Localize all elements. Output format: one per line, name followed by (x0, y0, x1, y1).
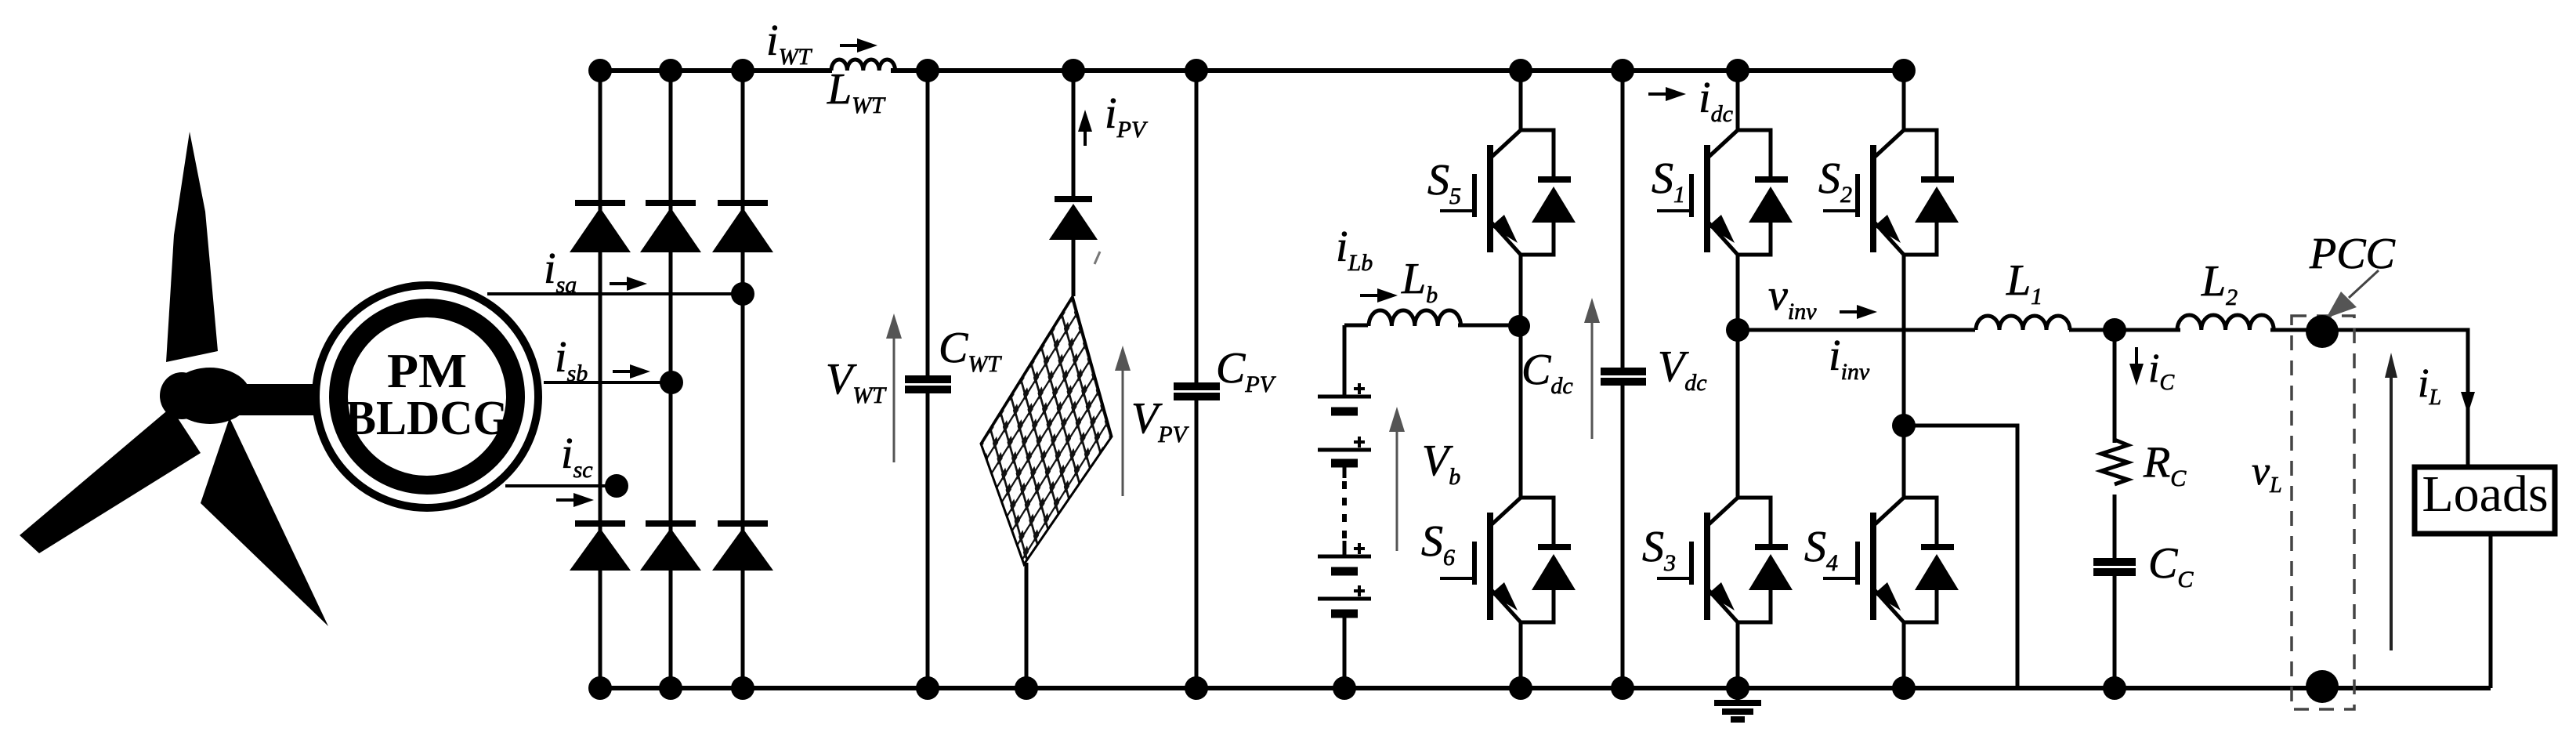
arrow i_sa (610, 282, 630, 285)
battery cell 3 (1318, 543, 1371, 571)
wire phase c (505, 484, 619, 487)
capacitor C_C (2093, 562, 2136, 572)
node battery bottom rail (1333, 676, 1356, 700)
node C_WT top (916, 59, 939, 82)
generator PM BLDCG inner ring (338, 308, 516, 485)
transistor S4 (1823, 498, 1959, 622)
svg-text:Loads: Loads (2422, 466, 2548, 523)
node S2 S4 midpoint (1892, 414, 1916, 437)
arrow i_WT (840, 44, 860, 47)
ground (1714, 688, 1761, 719)
node bottom rail col1 (588, 676, 612, 700)
node phase b junction (660, 371, 683, 394)
arrow i_C (2135, 347, 2138, 365)
battery cell 2 (1318, 437, 1371, 463)
transistor S1 (1657, 130, 1793, 255)
node S6 leg bottom (1509, 676, 1532, 700)
wire shunt branch middle (2113, 495, 2117, 561)
capacitor C_dc (1601, 371, 1646, 382)
Loads box (2415, 467, 2555, 534)
node bottom rail col3 (731, 676, 754, 700)
arrow v_inv (1840, 310, 1860, 313)
inductor L_WT (831, 60, 895, 71)
wire rectifier column 3 (741, 71, 745, 688)
arrow V_PV polarity (1122, 355, 1124, 496)
arrow i_L down (2461, 392, 2475, 414)
wind turbine blade up (166, 132, 218, 362)
inductor L1 (1976, 316, 2070, 330)
wire rectifier column 1 (599, 71, 602, 688)
PV panel (981, 296, 1112, 564)
arrow i_Lb (1360, 294, 1380, 297)
arrow V_WT polarity (893, 323, 895, 462)
node phase a junction (731, 282, 754, 306)
node top rail col2 (659, 59, 682, 82)
wind turbine blade lower-left (20, 408, 201, 553)
wire C_PV column (1195, 71, 1199, 386)
arrow PCC pointer (2326, 270, 2379, 318)
wire shunt branch upper (2113, 330, 2117, 443)
wire C_dc column (1621, 71, 1625, 688)
node filter shunt (2103, 318, 2126, 342)
transistor S2 (1823, 130, 1959, 255)
node S2 leg top (1892, 59, 1916, 82)
resistor R_C (2101, 440, 2128, 484)
svg-text:BLDCG: BLDCG (346, 392, 508, 445)
wire loads bottom (2489, 534, 2493, 688)
node PCC top (2306, 315, 2339, 348)
wind turbine shaft (227, 384, 333, 415)
node PV bottom rail (1015, 676, 1038, 700)
wire phase b (544, 381, 671, 384)
diode D5 top col3 (712, 203, 773, 252)
wire rectifier column 2 (669, 71, 673, 688)
capacitor C_WT (905, 379, 951, 389)
diode D1 top col1 (570, 203, 631, 252)
wind turbine blade lower-right (201, 418, 328, 626)
wire battery dashed middle (1343, 463, 1347, 556)
node C_PV top (1185, 59, 1208, 82)
wire PV bottom column (1025, 563, 1029, 688)
inductor L2 (2177, 315, 2274, 330)
node top rail col3 (731, 59, 754, 82)
node S4 leg bottom (1892, 676, 1916, 700)
node PV top rail (1062, 59, 1085, 82)
wire inverter output (1738, 330, 2468, 467)
node bottom rail col2 (659, 676, 682, 700)
node C_WT bottom (916, 676, 939, 700)
wire S5 leg (1519, 71, 1523, 688)
node S3 leg bottom (1726, 676, 1749, 700)
node C_dc bottom (1611, 676, 1634, 700)
battery cell 1 (1318, 383, 1371, 411)
node inverter midpoint v_inv (1726, 318, 1749, 342)
node phase c junction (605, 474, 628, 498)
wire battery top (1343, 325, 1347, 397)
tick mark (1094, 252, 1100, 264)
transistor S3 (1657, 498, 1793, 622)
wire inverter neutral out (1904, 426, 2017, 688)
wind turbine hub (160, 368, 251, 424)
wire PV top column (1072, 71, 1076, 199)
arrow i_sb (613, 370, 633, 373)
node C_dc top (1611, 59, 1634, 82)
diode D_PV (1049, 199, 1098, 296)
wire S2 leg (1902, 71, 1906, 688)
node shunt bottom rail (2103, 676, 2126, 700)
node top rail col1 (588, 59, 612, 82)
wire C_WT column (926, 71, 930, 379)
transistor S5 (1440, 130, 1576, 255)
battery cell 4 (1318, 585, 1371, 614)
svg-text:PCC: PCC (2309, 230, 2396, 278)
node boost midpoint (1508, 315, 1530, 337)
node S1 leg top (1726, 59, 1749, 82)
inductor L_b (1369, 310, 1461, 326)
node S5 leg top (1509, 59, 1532, 82)
arrow i_PV (1084, 130, 1087, 146)
wire top DC rail (600, 68, 832, 73)
diode D3 top col2 (640, 203, 701, 252)
wire L_b leads (1344, 324, 1521, 328)
transistor S6 (1440, 498, 1576, 622)
generator PM BLDCG outer circle (316, 285, 538, 508)
node C_PV bottom (1185, 676, 1208, 700)
wire bottom DC rail (600, 686, 2491, 690)
wire shunt branch lower (2113, 571, 2117, 688)
wire phase a (487, 292, 743, 295)
diode D6 bottom col2 (640, 524, 701, 571)
arrow i_sc (556, 498, 577, 502)
PCC dashed box (2292, 316, 2354, 709)
svg-text:PM: PM (387, 345, 467, 398)
arrow load voltage up (2390, 367, 2393, 650)
arrow i_dc (1648, 92, 1669, 96)
node PCC bottom (2306, 670, 2339, 703)
arrow V_b polarity (1396, 416, 1398, 551)
diode D2 bottom col3 (712, 524, 773, 571)
arrow V_dc polarity (1591, 307, 1594, 439)
diode D4 bottom col1 (570, 524, 631, 571)
capacitor C_PV (1174, 386, 1220, 397)
wire S1 leg (1736, 71, 1740, 688)
wire battery bottom (1343, 614, 1347, 688)
